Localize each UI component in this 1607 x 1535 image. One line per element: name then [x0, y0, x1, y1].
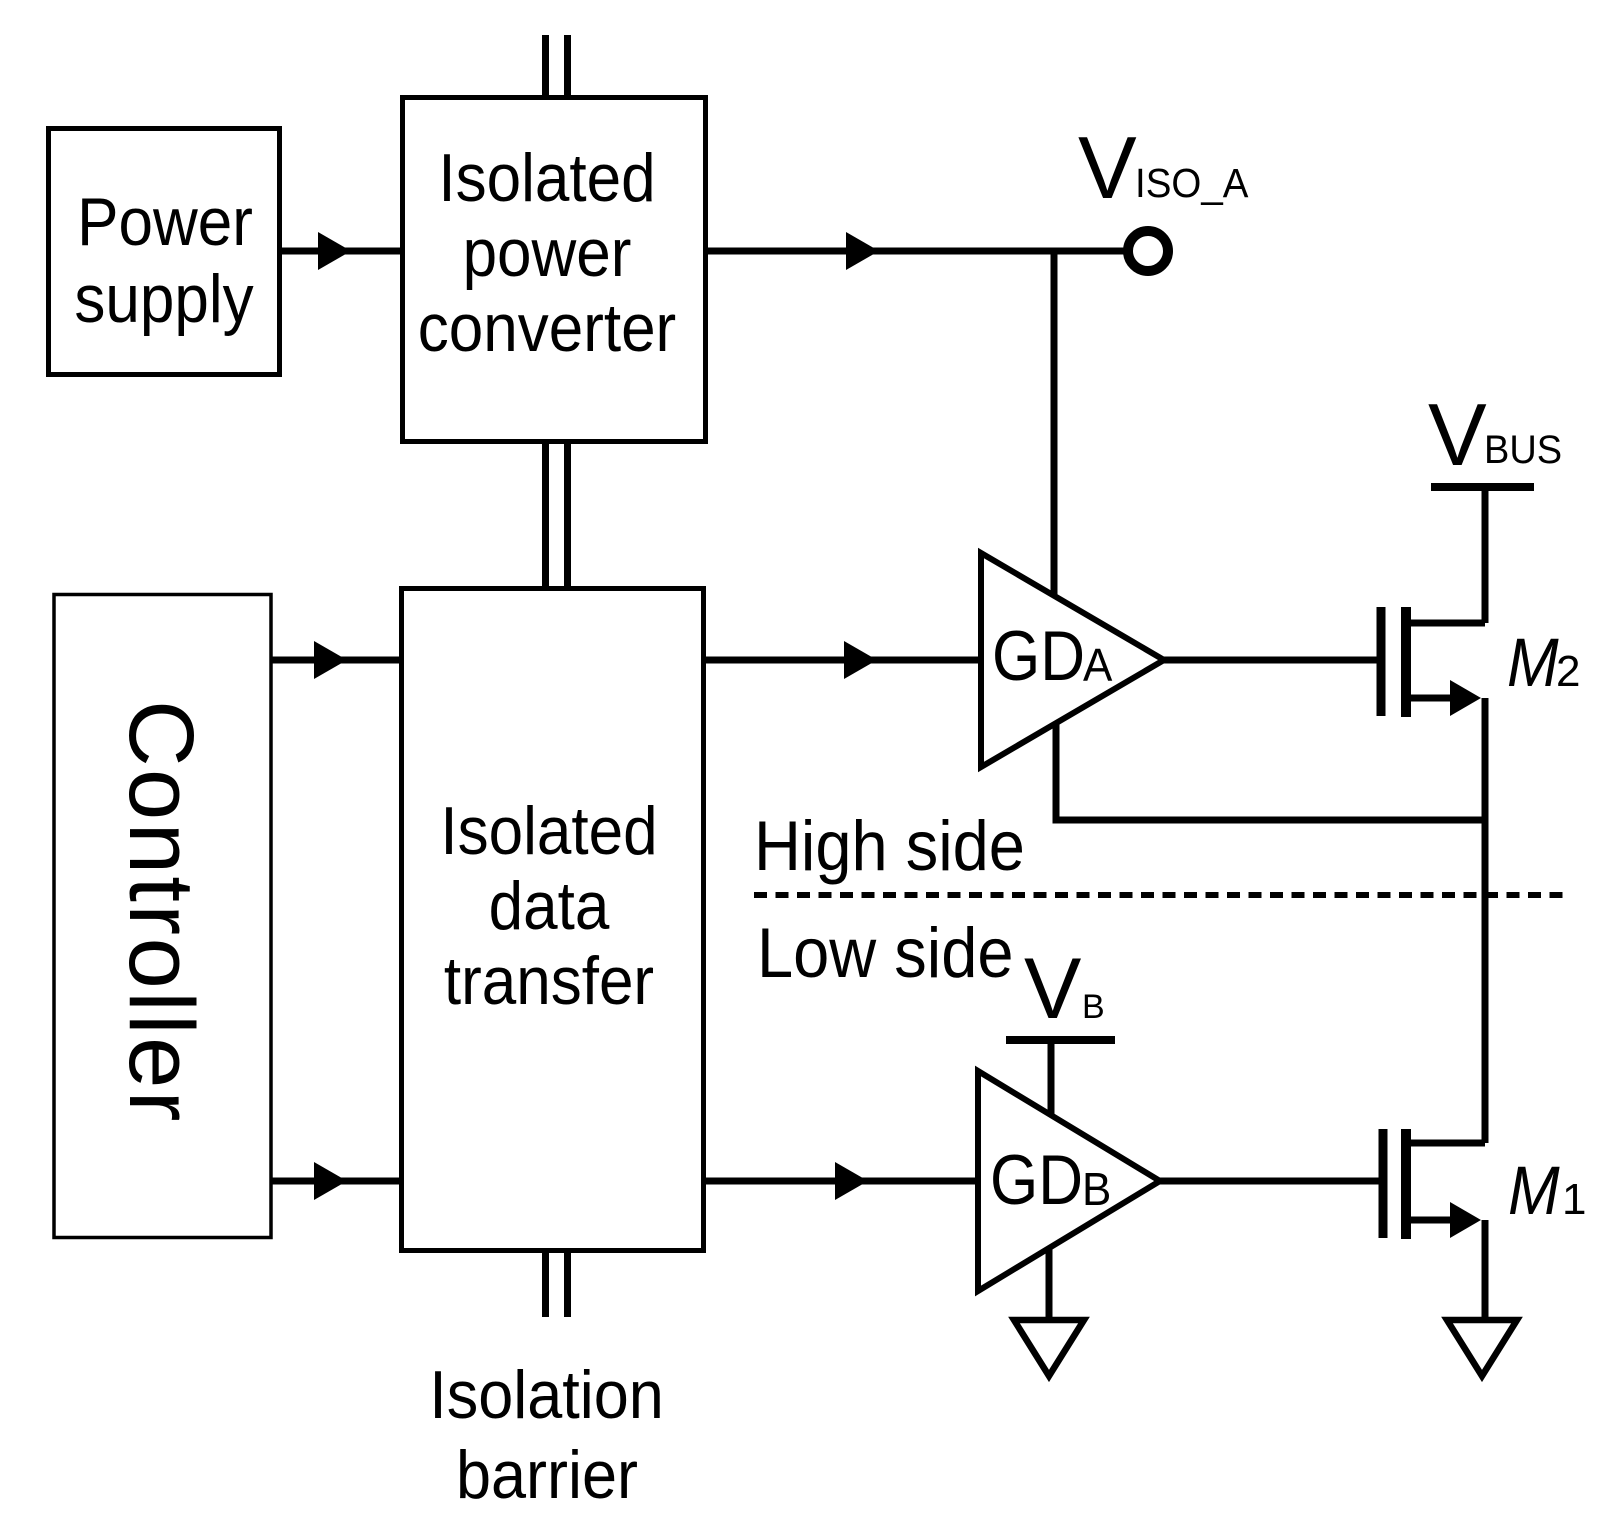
- label V_B: [1024, 941, 1105, 1037]
- transistor M2: [1381, 607, 1485, 717]
- svg-text:B: B: [1082, 988, 1105, 1026]
- svg-text:Power: Power: [77, 184, 253, 260]
- wire: data transfer to GD_A: [704, 641, 981, 679]
- svg-text:transfer: transfer: [444, 943, 654, 1019]
- wire: V_ISO_A branch down to GD_A supply: [1051, 251, 1058, 600]
- isolated data transfer box: [402, 589, 704, 1251]
- label V_ISO_A: [1078, 118, 1249, 217]
- power rail V_BUS bar: [1431, 483, 1534, 491]
- svg-text:V: V: [1428, 385, 1487, 484]
- wire: converter to V_ISO_A terminal: [706, 232, 1128, 270]
- svg-text:2: 2: [1556, 647, 1580, 696]
- label V_BUS: [1428, 385, 1562, 484]
- label: Isolation barrier: [429, 1357, 664, 1512]
- svg-text:Isolated: Isolated: [440, 793, 657, 869]
- svg-text:M: M: [1508, 1152, 1560, 1228]
- svg-text:V: V: [1024, 941, 1081, 1037]
- wire: M1 source to ground: [1482, 1220, 1489, 1320]
- svg-text:GD: GD: [992, 618, 1085, 696]
- op-amp gate driver GD_A: [981, 553, 1164, 767]
- op-amp gate driver GD_B: [978, 1071, 1160, 1291]
- svg-text:GD: GD: [990, 1142, 1083, 1220]
- svg-text:Isolation: Isolation: [429, 1357, 664, 1432]
- svg-text:power: power: [463, 215, 632, 291]
- isolation barrier double line (middle): [546, 442, 568, 588]
- svg-text:Isolated: Isolated: [438, 140, 655, 216]
- wire: GD_A bottom reference stub: [1053, 722, 1060, 820]
- label M2: [1507, 624, 1580, 700]
- wire: controller to data transfer (upper): [272, 641, 401, 679]
- wire: GD_B output to M1 gate: [1160, 1178, 1379, 1185]
- ground (GD_B): [1014, 1320, 1084, 1376]
- svg-text:data: data: [489, 868, 611, 944]
- controller box: [54, 595, 271, 1238]
- svg-text:barrier: barrier: [456, 1437, 638, 1513]
- svg-text:High side: High side: [754, 806, 1025, 885]
- wire: data transfer to GD_B: [704, 1162, 978, 1200]
- power supply box: [49, 129, 280, 375]
- wire: feedback from GD_A reference to switch node: [1053, 817, 1486, 824]
- svg-text:ISO_A: ISO_A: [1135, 161, 1249, 206]
- isolated power converter U1: [403, 98, 706, 442]
- svg-text:B: B: [1082, 1163, 1111, 1215]
- label M1: [1508, 1152, 1586, 1228]
- wire: power supply to converter: [280, 232, 402, 270]
- svg-text:Low side: Low side: [757, 913, 1013, 992]
- svg-text:M: M: [1507, 624, 1559, 700]
- svg-text:A: A: [1083, 639, 1112, 691]
- isolation barrier double line (bottom): [546, 1251, 568, 1317]
- transistor M1: [1383, 1129, 1485, 1239]
- power rail V_B bar: [1006, 1036, 1115, 1044]
- svg-text:Controller: Controller: [110, 700, 212, 1124]
- wire: controller to data transfer (lower): [272, 1162, 401, 1200]
- dashed separator line: [754, 892, 1570, 898]
- wire: M2 source / switch node down to M1 drain: [1482, 698, 1489, 1143]
- svg-text:supply: supply: [74, 261, 254, 337]
- wire: GD_B ground stub: [1046, 1247, 1053, 1320]
- wire: GD_A output to M2 gate: [1164, 657, 1377, 664]
- svg-text:converter: converter: [418, 290, 676, 366]
- wire: V_BUS to M2 drain: [1482, 487, 1489, 623]
- svg-text:1: 1: [1562, 1175, 1586, 1224]
- svg-text:V: V: [1078, 118, 1137, 217]
- svg-text:BUS: BUS: [1484, 428, 1562, 472]
- node V_ISO_A terminal circle: [1128, 231, 1168, 271]
- wire: V_B to GD_B supply: [1048, 1040, 1055, 1118]
- ground (M1): [1447, 1320, 1517, 1376]
- isolation barrier double line (top): [546, 35, 568, 97]
